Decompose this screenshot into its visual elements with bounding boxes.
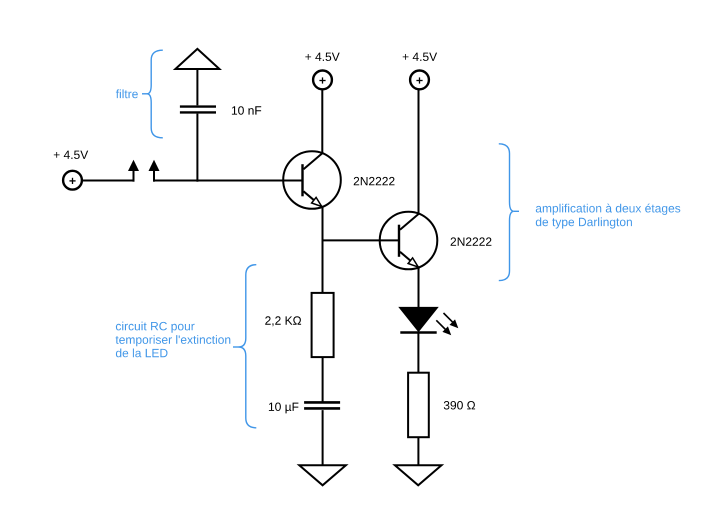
wire antenna to C1: [196, 69, 198, 105]
label + 4.5V (V2): [305, 53, 339, 61]
value label 10 nF: [232, 106, 261, 115]
annotation brace filtre: [142, 50, 163, 138]
wire C1 to node A: [196, 114, 198, 182]
wire C2 to ground 1: [322, 410, 324, 465]
resistor R2: [408, 373, 429, 438]
wire touch contact to Q1 base (node A junction): [154, 180, 303, 182]
wire Q1 emitter to node B: [322, 207, 324, 242]
antenna ANT1: [175, 49, 219, 69]
ground 2: [395, 465, 442, 485]
capacitor C2: [304, 402, 340, 408]
wire V3 to Q2 collector: [418, 90, 420, 214]
label + 4.5V (V3): [403, 53, 437, 61]
label Q1 2N2222: [354, 177, 395, 185]
value label 390 Ω: [444, 401, 475, 410]
transistor Q1: [283, 151, 341, 209]
value label 10 µF: [269, 403, 299, 414]
power source V3 +4.5V: [410, 71, 429, 90]
annotation label amplification: [536, 204, 681, 229]
resistor R1: [312, 293, 334, 357]
annotation brace amplification: [499, 144, 519, 281]
wire R2 to ground 2: [417, 437, 419, 465]
transistor Q2: [380, 212, 438, 270]
wire node B to R1: [322, 240, 324, 293]
touch contact arrow 2: [149, 160, 160, 182]
annotation label circuit RC: [116, 322, 231, 358]
ground 1: [299, 465, 346, 485]
wire R1 to C2: [322, 357, 324, 401]
capacitor C1: [180, 107, 216, 113]
power source V2 +4.5V: [313, 71, 332, 90]
LED D1: [399, 307, 457, 334]
wire V2 to Q1 collector: [321, 90, 323, 154]
value label 2,2 KΩ: [265, 316, 301, 326]
wire V1 to touch contact: [82, 180, 134, 182]
label Q2 2N2222: [451, 237, 492, 245]
label + 4.5V (V1): [54, 151, 88, 159]
annotation label filtre: [116, 89, 138, 98]
touch contact arrow 1: [128, 160, 139, 182]
wire node B to Q2 base: [322, 239, 400, 241]
wire LED cathode to R2: [417, 334, 419, 373]
wire Q2 emitter to LED anode: [418, 268, 420, 308]
power source V1 +4.5V: [63, 171, 82, 190]
annotation brace circuit RC: [233, 265, 256, 428]
